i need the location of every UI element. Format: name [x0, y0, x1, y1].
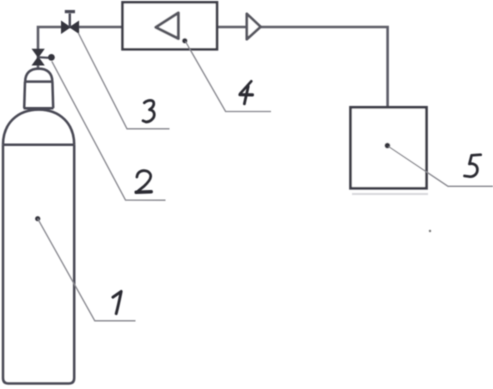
box 4 [123, 2, 218, 49]
neck base line [24, 107, 54, 110]
valve 2 on cylinder [33, 49, 55, 65]
valve 3 [62, 12, 79, 33]
scan shadow under box 5 [352, 193, 428, 195]
stray speck [429, 230, 431, 232]
label 2 [136, 171, 151, 193]
seam line [3, 144, 74, 147]
box 5 [351, 107, 427, 188]
leader line 1 [38, 219, 136, 321]
dot in cylinder [35, 216, 40, 221]
wire from corner above cylinder to box 4 [38, 27, 123, 70]
leader line 3 [78, 33, 169, 129]
label 4 [240, 81, 252, 104]
neck sides [23, 82, 26, 109]
collar line [25, 80, 52, 83]
wire from box 4 to right corner and down to box 5 [217, 27, 388, 107]
body [3, 145, 74, 384]
leader line 4 [186, 42, 272, 112]
dot on box 4 [182, 38, 187, 43]
label 5 [465, 155, 481, 177]
shoulder dome [3, 110, 74, 145]
arrow (check valve) [247, 14, 261, 39]
dot in box 5 [385, 143, 391, 149]
triangle inside box 4 [156, 13, 179, 39]
leader line 2 [52, 61, 166, 200]
label 3 [143, 100, 154, 122]
label 1 [113, 291, 121, 313]
cap dome [25, 69, 52, 82]
gas cylinder [3, 69, 74, 384]
leader line 5 [389, 147, 493, 187]
